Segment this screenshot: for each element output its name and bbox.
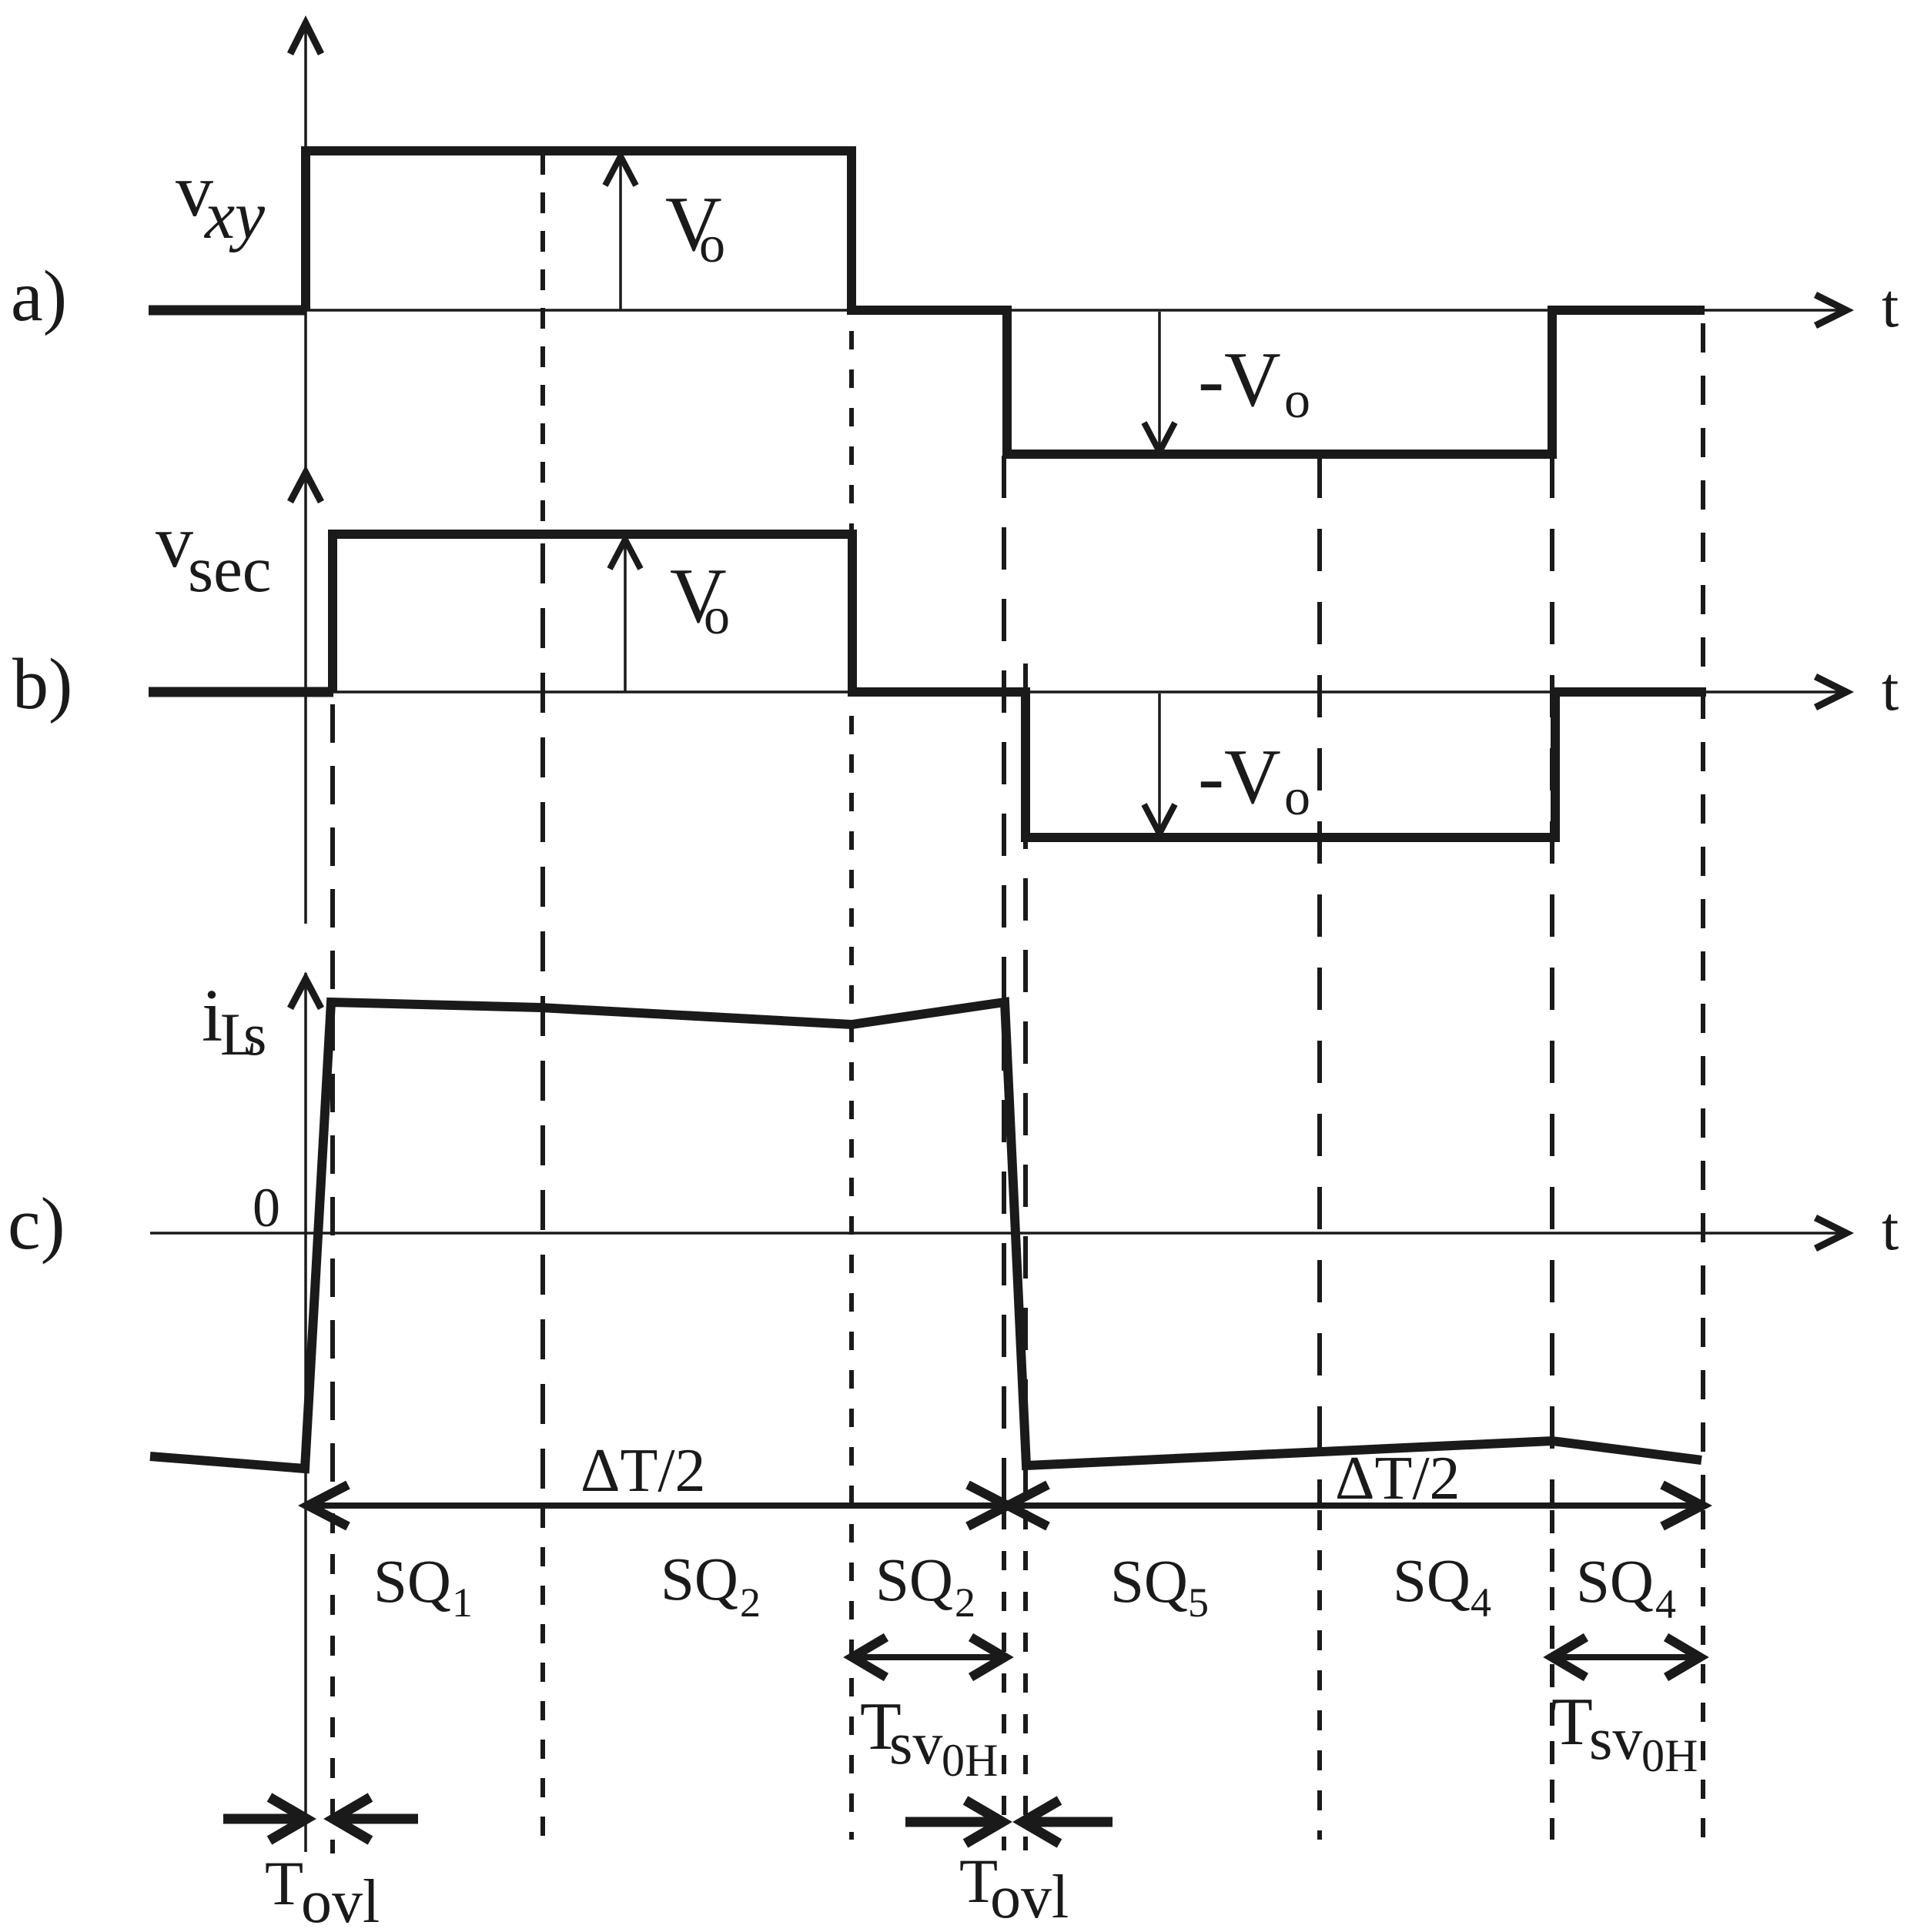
waveform iLs (150, 1002, 1701, 1469)
wire dashed timing line t8 upper (1701, 323, 1705, 1506)
wire dashed timing line t1 lower (330, 1513, 335, 1853)
svg-text:SQ: SQ (373, 1549, 451, 1616)
wire dashed timing line t4 upper (1002, 456, 1006, 1506)
svg-text:o: o (1284, 767, 1310, 826)
wire dashed timing line t2 lower (540, 1509, 545, 1840)
svg-text:4: 4 (1471, 1579, 1491, 1626)
wire dashed timing line t6 upper (1317, 456, 1322, 1506)
wire t-axis panel b (150, 690, 1840, 694)
waveform v_xy (306, 151, 1705, 454)
wire t-axis panel c (150, 1232, 1840, 1235)
wire vertical y-axis shared line upper (304, 22, 307, 924)
node Tovl arrows first (223, 1814, 304, 1824)
svg-text:T: T (265, 1848, 303, 1918)
wire dashed timing line t5 upper (1023, 663, 1028, 1506)
wire dashed timing line t1 upper (330, 704, 335, 1506)
node t-axis arrowhead panel c (1815, 1218, 1846, 1248)
wire dashed timing line t4 lower (1002, 1510, 1006, 1850)
node Tsv0H dimension arrow left (852, 1654, 1005, 1660)
svg-text:ΔT/2: ΔT/2 (1335, 1445, 1461, 1513)
node dT/2 dimension line (306, 1502, 1702, 1509)
svg-text:-V: -V (1198, 734, 1281, 821)
wire vertical y-axis shared line lower (304, 973, 307, 1852)
svg-text:c): c) (8, 1182, 65, 1265)
wire dashed timing line t5 lower (1023, 1510, 1028, 1850)
svg-text:ΔT/2: ΔT/2 (581, 1437, 706, 1505)
node Vo arrow panel b (624, 541, 627, 692)
wire dashed timing line t2 mid (540, 543, 545, 1506)
node Tovl arrows second (905, 1817, 1001, 1827)
waveform v_sec (333, 534, 1706, 837)
svg-text:SQ: SQ (661, 1546, 738, 1613)
wire dashed timing line t7 lower (1550, 1510, 1554, 1840)
svg-text:o: o (699, 215, 725, 273)
svg-text:SQ: SQ (1110, 1549, 1188, 1616)
svg-text:0: 0 (253, 1177, 280, 1238)
svg-text:sv: sv (889, 1710, 942, 1777)
svg-text:5: 5 (1188, 1579, 1209, 1626)
svg-text:o: o (704, 587, 730, 645)
svg-text:0H: 0H (1641, 1730, 1698, 1781)
node t-axis arrowhead panel a (1815, 295, 1846, 326)
node -Vo arrow panel b (1158, 694, 1161, 831)
svg-text:SQ: SQ (1576, 1549, 1654, 1616)
node t-axis arrowhead panel b (1815, 677, 1846, 707)
svg-text:0H: 0H (942, 1735, 998, 1786)
svg-text:b): b) (12, 644, 72, 724)
wire dashed timing line t7 upper (1550, 456, 1554, 1506)
svg-text:2: 2 (740, 1579, 761, 1626)
svg-text:T: T (1551, 1685, 1593, 1760)
wire dashed timing line t8 lower (1701, 1510, 1705, 1840)
svg-text:1: 1 (452, 1579, 473, 1626)
svg-text:ovl: ovl (301, 1868, 380, 1932)
wire zero-level bold segment left panel a (149, 306, 306, 316)
svg-text:t: t (1882, 272, 1899, 340)
svg-text:sv: sv (1589, 1705, 1642, 1772)
wire dashed timing line t2 panel a (540, 154, 545, 539)
svg-text:4: 4 (1655, 1581, 1676, 1627)
svg-text:xy: xy (203, 179, 266, 253)
node y-axis arrowhead panel c (290, 979, 321, 1008)
svg-text:o: o (1284, 370, 1310, 429)
node y-axis arrowhead panel b (290, 473, 321, 502)
svg-text:ovl: ovl (990, 1863, 1069, 1931)
node Vo arrow panel a (619, 158, 622, 310)
svg-text:t: t (1882, 656, 1899, 724)
svg-text:2: 2 (955, 1579, 975, 1626)
node y-axis arrowhead panel a (290, 23, 321, 54)
svg-text:t: t (1882, 1195, 1899, 1263)
wire dashed timing line t6 lower (1317, 1510, 1322, 1840)
svg-text:a): a) (11, 256, 67, 336)
node -Vo arrow panel a (1158, 312, 1161, 449)
wire dashed timing line t3 (849, 331, 854, 1840)
svg-text:-V: -V (1198, 336, 1281, 423)
wire t-axis panel a (150, 309, 1840, 312)
svg-text:SQ: SQ (875, 1547, 953, 1614)
node Tsv0H dimension arrow right (1551, 1654, 1701, 1660)
wire zero-level bold segment left panel b (149, 687, 333, 697)
svg-text:SQ: SQ (1393, 1548, 1471, 1615)
svg-text:s: s (243, 1001, 266, 1068)
svg-text:sec: sec (188, 533, 272, 606)
